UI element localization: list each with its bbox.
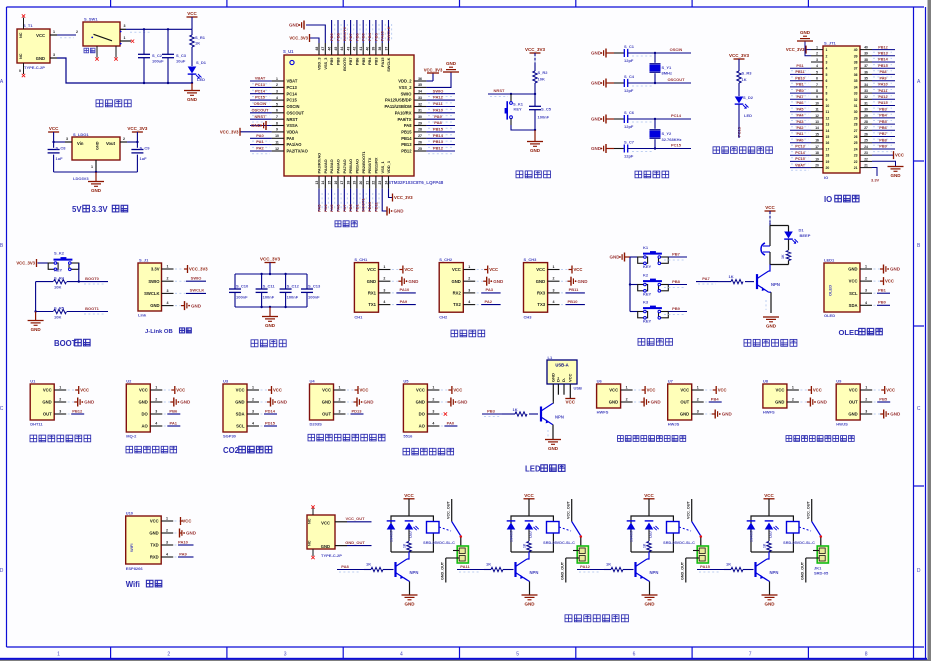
wire net PD13 U4 — [347, 413, 351, 415]
svg-text:1: 1 — [468, 265, 470, 269]
pin S_JT1 37 — [860, 67, 872, 69]
wire net PB12 — [426, 150, 455, 152]
svg-text:GND: GND — [765, 602, 776, 607]
wire net PA0 — [250, 137, 272, 139]
svg-text:7: 7 — [816, 83, 818, 87]
svg-text:4: 4 — [432, 422, 434, 426]
svg-text:PA1: PA1 — [796, 132, 803, 136]
svg-text:17: 17 — [826, 148, 830, 152]
svg-text:23: 23 — [864, 151, 868, 155]
svg-text:1K: 1K — [195, 41, 200, 46]
ground GND led — [545, 439, 561, 441]
svg-text:PA7: PA7 — [702, 276, 710, 281]
svg-text:26: 26 — [418, 140, 422, 144]
connector S_CH1 CH1 — [354, 263, 378, 313]
svg-text:VCC: VCC — [452, 267, 461, 272]
svg-text:OSCOUT: OSCOUT — [251, 107, 269, 112]
power VCC oled pin2 — [874, 280, 881, 282]
transistor relay NPN PA8 — [394, 562, 396, 577]
wire net PA11 relay input — [457, 569, 484, 571]
svg-text:PA5: PA5 — [329, 204, 334, 212]
svg-text:21: 21 — [365, 181, 369, 185]
wire relay rails PA15 — [751, 516, 793, 552]
pin S_JT1 40 — [860, 49, 872, 51]
svg-text:1: 1 — [865, 386, 867, 390]
svg-text:2: 2 — [553, 277, 555, 281]
resistor relay base 1K PA12 — [604, 569, 611, 571]
svg-text:VCC: VCC — [416, 388, 425, 393]
svg-text:SWIO: SWIO — [433, 88, 444, 93]
svg-text:37: 37 — [384, 47, 388, 51]
svg-text:DO: DO — [142, 412, 149, 417]
pin S_JT1 29 — [860, 117, 872, 119]
mcu S_U1 STM32F103C8T6_LQFP48 — [284, 55, 414, 176]
svg-text:PA9/TX: PA9/TX — [397, 117, 411, 122]
pin S_JT1 38 — [860, 61, 872, 63]
svg-text:VBAT: VBAT — [287, 79, 298, 84]
wire net SWCLK jlink — [175, 292, 186, 294]
svg-text:14: 14 — [826, 129, 830, 133]
svg-text:GND: GND — [848, 412, 857, 417]
svg-text:SRD-05: SRD-05 — [814, 571, 829, 576]
svg-text:PB10: PB10 — [795, 76, 805, 80]
svg-text:S_C10: S_C10 — [236, 284, 249, 289]
svg-text:4: 4 — [816, 64, 818, 68]
svg-text:VCC_3V3: VCC_3V3 — [424, 68, 443, 73]
svg-text:PA2: PA2 — [796, 126, 803, 130]
svg-text:27: 27 — [854, 129, 858, 133]
ground GND U3 pin2 — [261, 401, 268, 403]
wire NRST node — [488, 93, 535, 95]
svg-text:K2: K2 — [643, 273, 649, 278]
svg-text:24: 24 — [384, 181, 388, 185]
svg-text:VCC: VCC — [321, 521, 330, 526]
svg-text:2: 2 — [155, 398, 157, 402]
svg-text:RX3: RX3 — [537, 291, 546, 296]
svg-text:GND: GND — [651, 400, 662, 405]
svg-text:PB5: PB5 — [879, 396, 888, 401]
power VCC_3V3 at S_U1 VDDA — [240, 131, 272, 133]
svg-text:VCC: VCC — [273, 388, 282, 393]
svg-text:1K: 1K — [486, 562, 491, 567]
wire relay rails PA11 — [511, 516, 553, 552]
svg-text:29: 29 — [418, 121, 422, 125]
svg-text:32: 32 — [418, 102, 422, 106]
svg-text:PA9: PA9 — [434, 114, 442, 119]
svg-text:GND_OUT: GND_OUT — [681, 561, 685, 580]
wire net PA1 io-left — [790, 136, 811, 138]
diode 1N4007 PA12 — [627, 520, 636, 522]
pin S_JT1 6 — [811, 80, 823, 82]
power VCC_3V3 at S_U1 VDD_3 — [310, 38, 320, 43]
wire alarm bottom node — [770, 264, 789, 266]
svg-text:PB12: PB12 — [433, 146, 444, 151]
svg-text:VCC: VCC — [567, 373, 572, 382]
svg-text:VCC: VCC — [49, 126, 59, 131]
svg-text:12pF: 12pF — [624, 88, 634, 93]
svg-text:GND: GND — [186, 531, 197, 536]
svg-text:LED: LED — [525, 465, 541, 474]
svg-text:7: 7 — [749, 651, 752, 657]
wire net PD15 U3 — [261, 425, 265, 427]
key K2 — [630, 284, 638, 286]
label 分离式红外开关模块 right — [786, 436, 792, 442]
svg-text:4: 4 — [553, 300, 555, 304]
wire net PS1 io-left — [790, 67, 811, 69]
ground GND oled pin1 — [874, 268, 881, 270]
svg-text:GND: GND — [31, 327, 42, 332]
svg-text:36: 36 — [864, 70, 868, 74]
svg-text:2: 2 — [816, 52, 818, 56]
wire net PC15 io-left — [790, 160, 811, 162]
svg-text:38: 38 — [864, 58, 868, 62]
terminal block PA11 — [580, 538, 582, 551]
svg-text:VBAT: VBAT — [795, 163, 806, 167]
wire net PD14 U3 — [261, 413, 265, 415]
svg-text:2: 2 — [167, 277, 169, 281]
svg-text:PC15: PC15 — [795, 157, 805, 161]
svg-text:VCC_OUT: VCC_OUT — [345, 516, 365, 521]
wire net PB3 led — [482, 413, 502, 415]
wire relay collector PA11 — [527, 552, 529, 559]
svg-text:PB7: PB7 — [348, 32, 353, 41]
svg-text:37: 37 — [854, 67, 858, 71]
crystal S_Y1 8MHz — [654, 53, 656, 63]
svg-text:GND: GND — [591, 51, 602, 56]
svg-text:GND: GND — [367, 279, 376, 284]
svg-text:SWIO: SWIO — [148, 279, 160, 284]
svg-text:VCC: VCC — [680, 388, 689, 393]
svg-text:PC13: PC13 — [255, 82, 266, 87]
wire net PA3 bottom — [318, 189, 320, 211]
svg-text:PA10/RX: PA10/RX — [395, 110, 412, 115]
svg-text:3.3V: 3.3V — [92, 205, 109, 214]
svg-text:VCC_3V3: VCC_3V3 — [127, 126, 148, 131]
power VCC usb inverted — [565, 398, 575, 400]
svg-text:21: 21 — [864, 164, 868, 168]
wire net PA8 — [426, 125, 455, 127]
svg-text:28: 28 — [864, 120, 868, 124]
wire net PB13 io-right — [872, 55, 895, 57]
svg-text:SDA: SDA — [236, 412, 245, 417]
svg-text:OSCIN: OSCIN — [254, 101, 267, 106]
svg-text:8MHz: 8MHz — [662, 71, 672, 76]
wire net PB10 io-left — [790, 80, 811, 82]
svg-text:10K: 10K — [54, 315, 61, 320]
power VCC U1 pin1 — [68, 389, 76, 391]
svg-text:32: 32 — [854, 98, 858, 102]
svg-text:29: 29 — [864, 114, 868, 118]
svg-text:GND: GND — [722, 412, 733, 417]
svg-text:U1: U1 — [30, 379, 36, 384]
label 串口电路 — [451, 330, 458, 337]
svg-text:SGP30: SGP30 — [223, 434, 237, 439]
pin S_JT1 8 — [811, 92, 823, 94]
pin S_U1 2 PC13 — [272, 86, 284, 88]
svg-text:KEY: KEY — [643, 264, 652, 269]
wire net PA12 io-right — [872, 98, 895, 100]
ground GND S_CH1 — [392, 280, 399, 282]
ground GND 5V section — [95, 172, 97, 181]
pin S_JT1 12 — [811, 117, 823, 119]
svg-text:PA12/USB/DP: PA12/USB/DP — [385, 98, 412, 103]
pin S_U1 29 PA8 — [414, 125, 426, 127]
svg-text:1uF: 1uF — [56, 156, 64, 161]
svg-text:100nF: 100nF — [308, 295, 320, 300]
svg-text:1N4007: 1N4007 — [630, 530, 634, 542]
ground GND at S_U1 VSS_1 — [382, 189, 387, 211]
power VCC U3 pin1 — [261, 389, 269, 391]
wire net PA10 wifi — [175, 544, 179, 546]
svg-text:SCL: SCL — [849, 291, 858, 296]
svg-text:PB4: PB4 — [367, 57, 372, 65]
svg-text:PC15: PC15 — [287, 98, 298, 103]
wire key to bottom — [510, 119, 512, 125]
wire bottom rail 5V section — [54, 171, 138, 173]
diode 1N4007 PA11 — [507, 520, 516, 522]
svg-text:1K: 1K — [726, 562, 731, 567]
connector S_T1 TYPE-C-2P — [17, 29, 50, 63]
svg-text:1: 1 — [816, 46, 818, 50]
svg-text:PC14: PC14 — [255, 88, 266, 93]
svg-text:NPN: NPN — [770, 570, 779, 575]
wire net PA10 io-right — [872, 86, 895, 88]
svg-text:3: 3 — [816, 58, 818, 62]
wire net PB11 S_CH3 — [561, 292, 566, 294]
svg-text:GND: GND — [138, 400, 147, 405]
header S_JT1 IO expansion — [823, 46, 860, 173]
svg-text:20: 20 — [815, 164, 819, 168]
led S_D1 — [188, 67, 197, 74]
svg-text:36: 36 — [418, 77, 422, 81]
wire relay rails PA12 — [631, 516, 673, 552]
svg-text:PB15: PB15 — [878, 64, 888, 68]
svg-text:19: 19 — [353, 181, 357, 185]
svg-text:U2: U2 — [126, 379, 132, 384]
power VCC U2 pin1 — [164, 389, 172, 391]
svg-text:GND: GND — [609, 400, 618, 405]
svg-text:S_SW1: S_SW1 — [84, 17, 98, 22]
svg-text:3: 3 — [339, 410, 341, 414]
svg-text:31: 31 — [418, 109, 422, 113]
switch S_SW1 — [83, 22, 120, 46]
power VCC U6 pin1 — [634, 389, 642, 391]
svg-text:GND_OUT: GND_OUT — [345, 540, 365, 545]
wire net PA9 S_CH1 — [392, 304, 397, 306]
svg-text:S_U1: S_U1 — [283, 49, 294, 54]
power VCC io pin23 — [872, 154, 893, 156]
wire net PB5 top — [362, 20, 364, 43]
svg-text:S_CH1: S_CH1 — [354, 257, 368, 262]
svg-text:3.3V: 3.3V — [871, 178, 880, 183]
pin L1 D- — [563, 384, 565, 395]
module U5 5516 — [403, 384, 427, 432]
svg-text:14: 14 — [321, 181, 325, 185]
svg-text:25: 25 — [864, 139, 868, 143]
svg-text:VSS_3: VSS_3 — [323, 57, 328, 70]
svg-text:VCC: VCC — [360, 388, 369, 393]
svg-text:PB2/BOOT1: PB2/BOOT1 — [361, 151, 366, 174]
svg-text:PA3: PA3 — [796, 120, 803, 124]
connector TYPE-C-2P relay supply — [307, 515, 335, 549]
svg-text:HWFS: HWFS — [763, 410, 775, 415]
ground GND boot — [35, 312, 37, 321]
wire net PB12 U1 — [68, 413, 72, 415]
wire key to BOOT0 node — [78, 263, 80, 282]
connector S_CH2 CH2 — [439, 263, 463, 313]
wire net PB15 io-right — [872, 67, 895, 69]
svg-text:2: 2 — [432, 398, 434, 402]
wire net PB9 — [668, 311, 687, 313]
svg-text:PA9: PA9 — [879, 76, 886, 80]
svg-text:PB8: PB8 — [879, 138, 886, 142]
svg-text:28: 28 — [418, 128, 422, 132]
svg-text:GND: GND — [91, 188, 102, 193]
pin S_U1 12 PA2/TX/AO — [272, 150, 284, 152]
svg-text:PB13: PB13 — [878, 52, 888, 56]
svg-text:PC15: PC15 — [671, 143, 682, 148]
svg-text:VCC_3V3: VCC_3V3 — [786, 47, 805, 52]
pin S_U1 5 OSCIN — [272, 106, 284, 108]
svg-text:S_Y2: S_Y2 — [662, 131, 673, 136]
wire filter top rail — [235, 273, 307, 275]
pin S_U1 31 PA10/RX — [414, 112, 426, 114]
label 分离式红外开关模块 left — [618, 436, 624, 442]
svg-text:DO: DO — [419, 412, 426, 417]
svg-text:GND: GND — [891, 173, 902, 178]
wire filter bottom rail — [235, 306, 307, 308]
pin S_U1 16 PA6/AO — [337, 176, 339, 189]
svg-text:1: 1 — [155, 386, 157, 390]
wire net PA9 wifi — [175, 556, 179, 558]
wire net PA5 bottom — [331, 189, 333, 211]
wire net NRST — [250, 118, 272, 120]
wire net PA7 io-left — [790, 98, 811, 100]
power VCC U5 pin1 — [441, 389, 449, 391]
svg-text:PA15: PA15 — [380, 31, 385, 41]
pin S_U1 46 PB9 — [331, 43, 333, 55]
svg-text:S_R1: S_R1 — [195, 35, 206, 40]
svg-text:29: 29 — [854, 116, 858, 120]
svg-text:USB: USB — [574, 386, 583, 391]
svg-text:NPN: NPN — [410, 570, 419, 575]
svg-text:NPN: NPN — [771, 282, 780, 287]
svg-text:GND: GND — [451, 279, 460, 284]
svg-text:VCC_3V3: VCC_3V3 — [394, 195, 413, 200]
svg-text:C: C — [917, 406, 921, 412]
svg-text:18: 18 — [826, 154, 830, 158]
svg-text:40: 40 — [854, 48, 858, 52]
relay coil SRD-05VDC-SL-C PA11 — [547, 522, 560, 534]
svg-text:SDA: SDA — [849, 303, 858, 308]
svg-text:11: 11 — [826, 110, 830, 114]
svg-text:S_K2: S_K2 — [54, 251, 65, 256]
resistor alarm led — [788, 240, 790, 250]
svg-text:PB13: PB13 — [401, 142, 412, 147]
svg-text:PA0: PA0 — [287, 136, 295, 141]
svg-text:S_C11: S_C11 — [263, 284, 276, 289]
resistor relay base 1K PA15 — [724, 569, 731, 571]
svg-text:2: 2 — [276, 83, 278, 87]
capacitor S_C3 10uF — [167, 29, 169, 54]
svg-text:VCC: VCC — [367, 267, 376, 272]
wire relay rails PA8 — [391, 516, 433, 552]
svg-text:PB10: PB10 — [567, 299, 578, 304]
pin S_JT1 4 — [811, 67, 823, 69]
svg-text:1K: 1K — [606, 562, 611, 567]
svg-text:BEEP: BEEP — [800, 233, 811, 238]
svg-text:MQ-2: MQ-2 — [126, 434, 137, 439]
svg-text:OUT: OUT — [680, 400, 689, 405]
svg-text:39: 39 — [372, 47, 376, 51]
wire OSCIN — [628, 52, 691, 54]
ground GND relay PA15 — [762, 594, 778, 596]
svg-text:GND: GND — [610, 255, 621, 260]
svg-text:PA6: PA6 — [335, 204, 340, 212]
wire relay emitter PA15 — [764, 578, 770, 582]
wire net PB6 io-right — [872, 129, 895, 131]
svg-text:3: 3 — [284, 651, 287, 657]
wire net VBAT io-left — [790, 167, 811, 169]
pin S_JT1 19 — [811, 160, 823, 162]
svg-text:3: 3 — [468, 288, 470, 292]
pin S_U1 28 PB15 — [414, 131, 426, 133]
power VCC_3V3 io pin1 — [806, 49, 811, 51]
svg-text:PA1: PA1 — [256, 139, 264, 144]
svg-text:6: 6 — [633, 651, 636, 657]
svg-text:OLED: OLED — [824, 313, 835, 318]
svg-text:HWFS: HWFS — [597, 410, 609, 415]
svg-text:GND: GND — [525, 602, 536, 607]
svg-text:GND: GND — [36, 56, 45, 61]
svg-text:STM32F103C8T6_LQFP48: STM32F103C8T6_LQFP48 — [388, 180, 444, 185]
power VCC S_CH1 — [392, 269, 400, 271]
resistor S_R3 1K — [737, 71, 741, 83]
svg-text:D+: D+ — [555, 376, 560, 382]
wire net GND_OUT — [335, 545, 347, 547]
pin S_T1 VCC pin 1 — [50, 34, 57, 36]
svg-text:35: 35 — [864, 77, 868, 81]
ground GND U4 pin2 — [347, 401, 354, 403]
pin S_U1 21 PB10/TX — [369, 176, 371, 189]
svg-text:10: 10 — [815, 101, 819, 105]
svg-text:PA8: PA8 — [879, 70, 886, 74]
svg-text:S_C6: S_C6 — [624, 110, 635, 115]
wire relay emitter PA11 — [524, 578, 530, 582]
pin S_SW1 3 — [120, 28, 126, 30]
key S_K1 — [510, 94, 512, 102]
svg-text:1: 1 — [553, 265, 555, 269]
wire net SWIO — [426, 93, 455, 95]
svg-text:PB9: PB9 — [672, 306, 681, 311]
svg-text:GND: GND — [408, 279, 419, 284]
svg-text:PD15: PD15 — [265, 420, 276, 425]
resistor S_R5 10K — [36, 311, 53, 313]
svg-text:BOOT0: BOOT0 — [342, 57, 347, 70]
svg-text:D203S: D203S — [310, 422, 323, 427]
svg-text:3: 3 — [53, 53, 55, 57]
svg-text:5: 5 — [816, 70, 818, 74]
wire net PA5 io-left — [790, 111, 811, 113]
svg-text:45: 45 — [334, 47, 338, 51]
wire net PB0 bottom — [350, 189, 352, 211]
svg-text:TX3: TX3 — [537, 302, 545, 307]
svg-text:J-Link OB: J-Link OB — [145, 329, 173, 335]
svg-text:GND: GND — [187, 97, 198, 102]
wire net PA7 bottom — [343, 189, 345, 211]
svg-text:GND: GND — [235, 400, 244, 405]
svg-text:2: 2 — [468, 277, 470, 281]
